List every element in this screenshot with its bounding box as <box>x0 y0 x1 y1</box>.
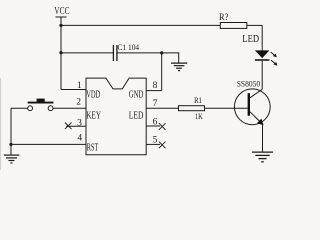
wire top horizontal to R? <box>61 24 220 26</box>
pin 8 stub <box>146 90 162 92</box>
pin 6 stub <box>146 125 160 127</box>
wire C1 right plate to junction <box>117 52 162 54</box>
svg-text:R?: R? <box>219 12 228 22</box>
scan edge artifact left <box>0 78 2 170</box>
wire R? to corner <box>247 24 262 26</box>
capacitor C1 <box>113 45 117 61</box>
transistor Q1 <box>234 89 270 125</box>
wire emitter to ground <box>262 124 264 151</box>
no-connect X pin 5 <box>159 142 166 149</box>
wire down to LED anode <box>261 25 263 50</box>
svg-text:1: 1 <box>77 81 82 91</box>
svg-text:8: 8 <box>153 81 158 91</box>
wire left rail to ground stem <box>10 144 12 154</box>
svg-text:7: 7 <box>153 99 158 109</box>
svg-text:GND: GND <box>129 89 144 100</box>
wire pin 1 (VDD) <box>61 89 86 91</box>
power VCC <box>56 16 67 18</box>
svg-text:R1: R1 <box>194 96 202 105</box>
LED light arrow 2 <box>271 60 277 66</box>
junction left rail / RST <box>9 143 12 146</box>
IC U1 body <box>86 78 146 155</box>
wire junction to ground stem <box>162 53 179 63</box>
ground (near C1) <box>171 63 187 71</box>
svg-text:6: 6 <box>153 117 158 127</box>
no-connect X pin 6 <box>159 123 166 130</box>
wire LED cathode to collector <box>261 61 263 89</box>
svg-text:C1 104: C1 104 <box>118 42 140 52</box>
LED light arrow 1 <box>271 52 277 57</box>
no-connect X pin 3 <box>65 123 72 130</box>
wire left rail vertical <box>10 108 12 144</box>
junction cap/gnd/pin8 <box>160 51 163 54</box>
svg-text:RST: RST <box>87 143 99 154</box>
wire switch left to rail <box>11 107 28 109</box>
svg-text:2: 2 <box>76 98 81 108</box>
pin 3 stub <box>66 125 86 127</box>
svg-text:3: 3 <box>77 118 82 128</box>
wire VCC to C1 left plate <box>61 52 113 54</box>
resistor R? <box>220 23 247 29</box>
junction cap tap <box>59 51 62 54</box>
svg-text:VDD: VDD <box>86 89 100 100</box>
svg-text:4: 4 <box>77 133 82 143</box>
wire junction down to pin 8 <box>161 53 163 91</box>
svg-text:5: 5 <box>153 135 158 145</box>
LED diode <box>255 50 270 60</box>
ground (left rail) <box>4 155 20 163</box>
junction top-wire tap <box>59 24 62 27</box>
ground (emitter) <box>252 152 273 162</box>
switch S1 pushbutton <box>28 99 54 111</box>
svg-text:VCC: VCC <box>54 5 69 17</box>
svg-text:SS8050: SS8050 <box>237 78 261 88</box>
pin 5 stub <box>146 143 160 145</box>
wire pin 7 (LED) to R1 <box>146 107 178 109</box>
wire R1 to base <box>205 107 248 109</box>
svg-text:1K: 1K <box>195 111 203 121</box>
svg-text:KEY: KEY <box>86 110 101 121</box>
wire pin 2 (KEY) from switch <box>53 107 86 109</box>
wire pin 4 (RST) to left rail <box>11 143 86 145</box>
svg-text:LED: LED <box>129 110 144 121</box>
svg-text:LED: LED <box>242 33 259 45</box>
wire VCC rail vertical <box>60 17 62 90</box>
resistor R1 <box>179 106 205 111</box>
